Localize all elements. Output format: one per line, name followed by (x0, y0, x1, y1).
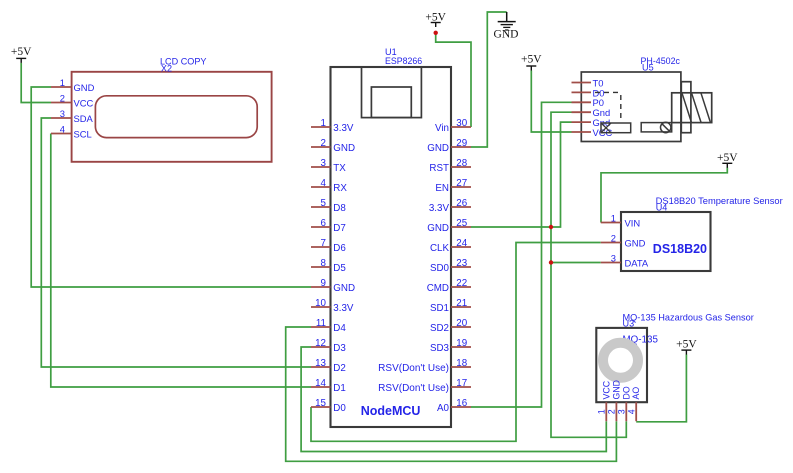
svg-text:13: 13 (315, 358, 326, 369)
svg-text:DO: DO (621, 386, 631, 399)
svg-text:28: 28 (456, 158, 467, 169)
svg-text:8: 8 (321, 258, 327, 269)
svg-text:VCC: VCC (601, 380, 611, 399)
svg-text:6: 6 (321, 218, 327, 229)
svg-text:MQ-135 Hazardous Gas Sensor: MQ-135 Hazardous Gas Sensor (623, 312, 754, 322)
svg-text:2: 2 (60, 92, 65, 103)
svg-text:4: 4 (60, 123, 65, 134)
svg-text:D1: D1 (333, 383, 346, 394)
svg-text:U3: U3 (623, 319, 635, 329)
svg-text:A0: A0 (437, 403, 450, 414)
svg-text:RST: RST (429, 163, 449, 174)
svg-text:DATA: DATA (625, 258, 649, 269)
svg-text:20: 20 (456, 318, 467, 329)
svg-text:3.3V: 3.3V (333, 123, 354, 134)
svg-text:SD3: SD3 (430, 343, 450, 354)
svg-text:2: 2 (321, 138, 326, 149)
svg-text:Vin: Vin (435, 123, 449, 134)
svg-text:SD2: SD2 (430, 323, 449, 334)
svg-text:D8: D8 (333, 203, 346, 214)
svg-text:29: 29 (456, 138, 467, 149)
svg-text:1: 1 (611, 212, 616, 223)
svg-text:GND: GND (333, 143, 355, 154)
svg-text:GND: GND (333, 283, 355, 294)
svg-text:D4: D4 (333, 323, 346, 334)
svg-text:3: 3 (617, 409, 627, 414)
svg-text:2: 2 (607, 409, 617, 414)
svg-text:16: 16 (456, 398, 467, 409)
svg-text:18: 18 (456, 358, 467, 369)
svg-text:D3: D3 (333, 343, 346, 354)
svg-text:19: 19 (456, 338, 467, 349)
svg-text:DS18B20: DS18B20 (653, 242, 707, 256)
svg-text:DS18B20 Temperature Sensor: DS18B20 Temperature Sensor (656, 196, 783, 206)
svg-text:ESP8266: ESP8266 (385, 56, 422, 66)
svg-text:3: 3 (60, 108, 65, 119)
svg-text:D5: D5 (333, 263, 346, 274)
svg-text:12: 12 (315, 338, 326, 349)
svg-text:D6: D6 (333, 243, 346, 254)
svg-text:11: 11 (316, 318, 326, 329)
svg-text:5: 5 (321, 198, 327, 209)
svg-text:GND: GND (74, 82, 95, 93)
svg-text:2: 2 (611, 232, 616, 243)
svg-text:GND: GND (427, 143, 449, 154)
svg-text:22: 22 (456, 278, 467, 289)
svg-text:17: 17 (456, 378, 467, 389)
svg-text:15: 15 (315, 398, 326, 409)
svg-text:+5V: +5V (521, 54, 542, 66)
svg-text:GND: GND (611, 380, 621, 400)
svg-text:RSV(Don't Use): RSV(Don't Use) (378, 363, 449, 374)
svg-text:TX: TX (333, 163, 346, 174)
svg-text:GND: GND (625, 238, 646, 249)
svg-text:EN: EN (435, 183, 449, 194)
svg-text:AO: AO (631, 387, 641, 400)
svg-text:U5: U5 (642, 63, 654, 73)
svg-text:4: 4 (626, 409, 636, 414)
svg-text:14: 14 (315, 378, 326, 389)
svg-text:X2: X2 (161, 64, 172, 74)
svg-text:25: 25 (456, 218, 467, 229)
svg-text:SCL: SCL (74, 129, 92, 140)
svg-text:D0: D0 (333, 403, 346, 414)
svg-text:3: 3 (611, 252, 616, 263)
svg-text:1: 1 (321, 118, 326, 129)
svg-text:3.3V: 3.3V (429, 203, 450, 214)
svg-text:7: 7 (321, 238, 326, 249)
svg-text:27: 27 (456, 178, 467, 189)
svg-text:10: 10 (315, 298, 326, 309)
svg-text:SD1: SD1 (430, 303, 449, 314)
svg-text:23: 23 (456, 258, 467, 269)
svg-text:1: 1 (60, 77, 65, 88)
svg-text:26: 26 (456, 198, 467, 209)
svg-text:NodeMCU: NodeMCU (361, 404, 421, 418)
svg-text:+5V: +5V (676, 339, 697, 351)
svg-text:+5V: +5V (11, 46, 32, 58)
svg-text:1: 1 (597, 409, 607, 414)
svg-text:D7: D7 (333, 223, 346, 234)
svg-text:24: 24 (456, 238, 467, 249)
svg-text:U4: U4 (656, 202, 668, 212)
svg-text:D2: D2 (333, 363, 346, 374)
svg-text:30: 30 (456, 118, 467, 129)
svg-text:+5V: +5V (425, 12, 446, 24)
svg-text:SD0: SD0 (430, 263, 450, 274)
svg-text:CMD: CMD (427, 283, 449, 294)
svg-text:3: 3 (321, 158, 327, 169)
svg-text:21: 21 (456, 298, 467, 309)
svg-text:9: 9 (321, 278, 326, 289)
svg-text:GND: GND (427, 223, 449, 234)
svg-text:+5V: +5V (717, 152, 738, 164)
svg-text:RSV(Don't Use): RSV(Don't Use) (378, 383, 449, 394)
svg-text:SDA: SDA (74, 113, 94, 124)
svg-text:CLK: CLK (430, 243, 450, 254)
svg-text:VIN: VIN (625, 218, 641, 229)
svg-text:3.3V: 3.3V (333, 303, 354, 314)
svg-text:GND: GND (494, 29, 519, 41)
svg-text:4: 4 (321, 178, 327, 189)
svg-text:VCC: VCC (74, 98, 94, 109)
svg-text:RX: RX (333, 183, 347, 194)
